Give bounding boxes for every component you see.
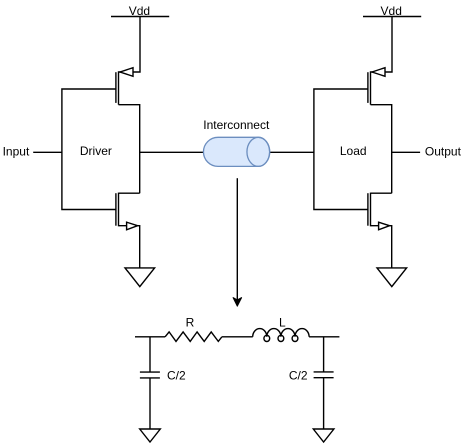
inductor L loop 2 xyxy=(278,335,284,341)
wire Output xyxy=(392,151,420,153)
capacitor C/2 right plates xyxy=(314,371,334,373)
svg-text:Input: Input xyxy=(3,145,30,159)
wire NMOS drain (driver) xyxy=(119,192,140,194)
inductor L loop 3 xyxy=(292,335,298,341)
resistor R xyxy=(165,332,222,342)
ground (left C/2) xyxy=(140,429,161,442)
svg-text:Vdd: Vdd xyxy=(381,4,402,18)
arrow from interconnect to model xyxy=(233,178,242,306)
load box xyxy=(314,89,368,210)
svg-text:Output: Output xyxy=(425,145,462,159)
wire left cap branch upper xyxy=(149,337,151,372)
wire NMOS source to ground (load) xyxy=(371,226,392,268)
wire right cap branch lower xyxy=(323,378,325,429)
transistor NMOS load gate bar xyxy=(367,193,369,226)
wire Vdd to PMOS source (driver) xyxy=(119,17,141,73)
wire PMOS drain to output node (driver) xyxy=(119,105,140,194)
svg-text:Driver: Driver xyxy=(80,144,112,158)
transistor NMOS load channel bar xyxy=(370,193,372,227)
svg-text:Vdd: Vdd xyxy=(129,4,150,18)
svg-text:L: L xyxy=(279,315,286,329)
transistor NMOS driver gate bar xyxy=(115,193,117,226)
transistor PMOS load gate bar xyxy=(367,72,369,103)
transistor PMOS load channel bar xyxy=(370,71,372,104)
transistor NMOS load source arrow xyxy=(379,222,390,230)
wire PMOS drain to output node (load) xyxy=(371,105,392,194)
wire interconnect to load xyxy=(270,151,314,153)
ground (load) xyxy=(377,268,407,287)
inductor L loop 1 xyxy=(264,335,270,341)
ground (driver) xyxy=(125,268,155,287)
capacitor C/2 left plates xyxy=(140,371,160,373)
driver box xyxy=(62,89,116,210)
svg-text:C/2: C/2 xyxy=(167,368,186,382)
svg-text:C/2: C/2 xyxy=(289,368,308,382)
transistor PMOS driver source arrow xyxy=(120,68,133,77)
wire NMOS drain (load) xyxy=(371,192,392,194)
transistor PMOS load source arrow xyxy=(372,68,385,77)
transistor PMOS driver gate bar xyxy=(115,72,117,103)
transistor NMOS driver source arrow xyxy=(127,222,138,230)
svg-text:R: R xyxy=(186,315,195,329)
wire bottom left lead xyxy=(135,336,165,338)
interconnect cylinder xyxy=(203,137,269,166)
wire Vdd to PMOS source (load) xyxy=(371,17,393,73)
Vdd rail (load) xyxy=(363,16,421,18)
svg-text:Interconnect: Interconnect xyxy=(203,118,270,132)
wire inductor to right xyxy=(309,336,339,338)
wire resistor to inductor xyxy=(222,336,253,338)
Vdd rail (driver) xyxy=(111,16,169,18)
wire left cap branch lower xyxy=(149,378,151,429)
transistor NMOS driver channel bar xyxy=(118,193,120,227)
ground (right C/2) xyxy=(313,429,334,442)
svg-text:Load: Load xyxy=(340,144,367,158)
wire NMOS source to ground (driver) xyxy=(119,226,140,268)
wire right cap branch upper xyxy=(323,337,325,372)
transistor PMOS driver channel bar xyxy=(118,71,120,104)
inductor L humps xyxy=(253,329,309,337)
wire driver to interconnect xyxy=(140,151,203,153)
wire Input xyxy=(33,151,62,153)
